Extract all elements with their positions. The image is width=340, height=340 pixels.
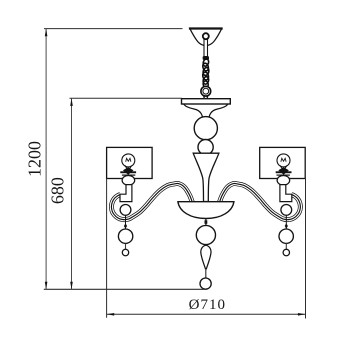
bulb right <box>277 154 290 167</box>
bottom small ball <box>200 278 211 289</box>
arm right (mirror) <box>219 183 300 219</box>
drop rod left <box>125 243 127 249</box>
shade left <box>107 147 153 178</box>
extension line diameter right <box>305 179 307 319</box>
hanger link left <box>125 215 127 229</box>
center ball drop <box>196 225 215 244</box>
link to plate <box>204 93 208 99</box>
bulb filament left <box>126 158 131 161</box>
trumpet stem <box>193 153 219 201</box>
teardrop <box>201 245 211 269</box>
socket right (black) <box>278 167 289 175</box>
sphere drop right <box>279 229 293 243</box>
top plate <box>182 99 231 104</box>
svg-text:1200: 1200 <box>25 141 45 177</box>
svg-text:680: 680 <box>48 177 68 204</box>
bobeche left <box>122 176 135 186</box>
extension line bottom <box>44 288 206 290</box>
vase neck below plate <box>184 104 203 117</box>
left lamp group <box>107 147 153 255</box>
candle tube + elbow right <box>280 185 292 202</box>
small ball right <box>283 249 289 255</box>
shade right <box>260 147 306 178</box>
small ball left <box>122 249 128 255</box>
hanger link right <box>285 215 287 229</box>
chain end ring <box>201 86 211 96</box>
bulb filament right <box>281 158 286 161</box>
candle tube + elbow left <box>120 185 132 202</box>
bowl finial nub <box>205 220 208 224</box>
big glass ball <box>194 117 217 140</box>
svg-text:Ø710: Ø710 <box>189 297 226 313</box>
bulb left <box>122 154 135 167</box>
socket left (black) <box>123 167 134 175</box>
chain top bead <box>203 56 209 60</box>
right lamp group (mirror) <box>260 147 306 255</box>
small glass ball <box>198 140 213 155</box>
ceiling canopy <box>189 29 223 46</box>
dimension line 1200 <box>45 29 47 290</box>
canopy ring <box>203 33 209 39</box>
dimension line 710 <box>107 313 306 315</box>
bowl <box>178 202 234 219</box>
loop ball right <box>281 205 292 216</box>
extension line top <box>44 28 183 30</box>
extension line 680 level <box>70 97 182 99</box>
bobeche right <box>277 176 290 186</box>
loop ball left <box>120 205 131 216</box>
arm left (S-curve with curl, triple line) <box>111 183 192 219</box>
sphere drop left <box>118 229 132 243</box>
drop rod right <box>285 243 287 249</box>
dimension line 680 <box>71 98 73 289</box>
extension line diameter left <box>106 179 108 318</box>
canopy hook rod <box>204 39 208 57</box>
chain links <box>202 58 210 88</box>
teardrop rod <box>205 269 207 278</box>
